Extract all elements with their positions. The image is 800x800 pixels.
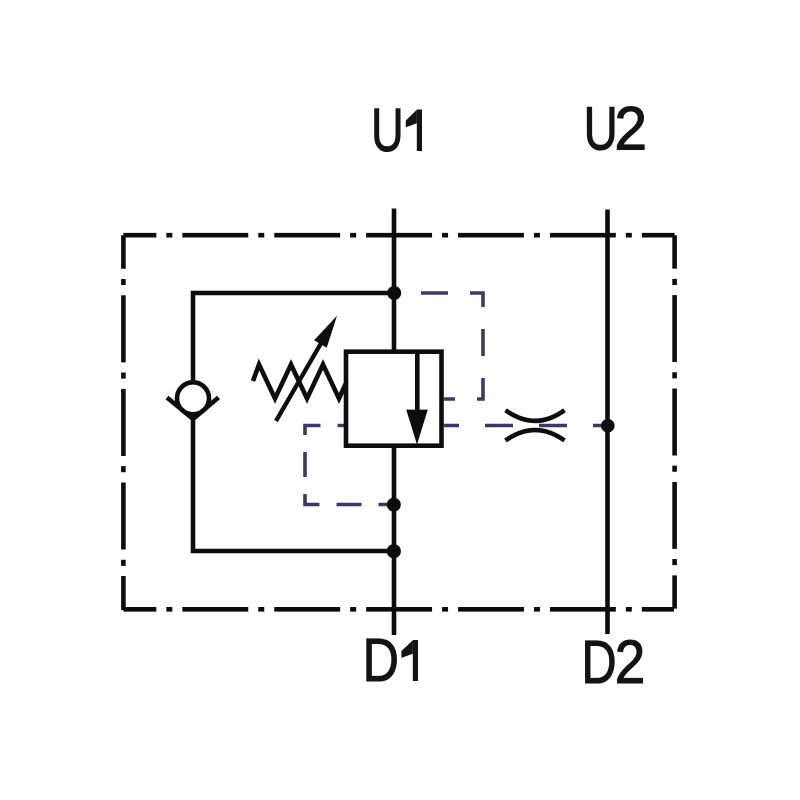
svg-text:D: D	[581, 628, 616, 697]
svg-text:U: U	[371, 96, 403, 164]
svg-text:2: 2	[615, 628, 646, 696]
svg-text:U: U	[584, 95, 618, 163]
svg-text:D: D	[363, 625, 399, 694]
svg-text:2: 2	[614, 95, 647, 163]
